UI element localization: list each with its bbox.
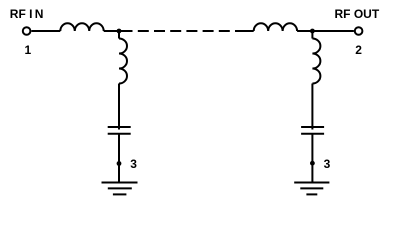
svg-text:3: 3: [130, 157, 137, 171]
wire: node B to terminal 2: [312, 30, 354, 32]
capacitor C2 (right shunt): [301, 127, 324, 134]
wire: C2 to ground: [311, 134, 313, 183]
terminal 1 (RF IN port): [23, 27, 31, 35]
node 3 (left ground lead junction): [117, 161, 122, 166]
inductor L2 (series, right): [254, 23, 297, 31]
capacitor C1 (left shunt): [108, 127, 131, 134]
node A (junction dot, left): [117, 29, 122, 34]
wire: node B down to shunt inductor: [311, 31, 313, 39]
wire: L1 to node A: [104, 30, 119, 32]
inductor L3 (shunt, left): [119, 39, 127, 84]
svg-text:1: 1: [24, 43, 31, 57]
wire: L4 to capacitor C2: [311, 84, 313, 130]
svg-text:3: 3: [324, 157, 331, 171]
node 3 (right ground lead junction): [310, 161, 315, 166]
ground (left): [102, 183, 138, 195]
wire: node A down to shunt inductor: [118, 31, 120, 39]
terminal 2 (RF OUT port): [355, 27, 363, 35]
wire: C1 to ground: [118, 134, 120, 183]
inductor L1 (series, left): [60, 23, 103, 31]
svg-text:RF IN: RF IN: [10, 7, 44, 21]
wire: L2 to node B: [297, 30, 312, 32]
dashed wire (omitted filter sections): [119, 30, 254, 32]
wire: L3 to capacitor C1: [118, 84, 120, 130]
svg-text:2: 2: [355, 43, 362, 57]
wire: terminal 1 to L1: [31, 30, 60, 32]
svg-text:RF OUT: RF OUT: [335, 7, 380, 21]
ground (right): [294, 183, 329, 195]
inductor L4 (shunt, right): [312, 39, 320, 84]
node B (junction dot, right): [310, 29, 315, 34]
